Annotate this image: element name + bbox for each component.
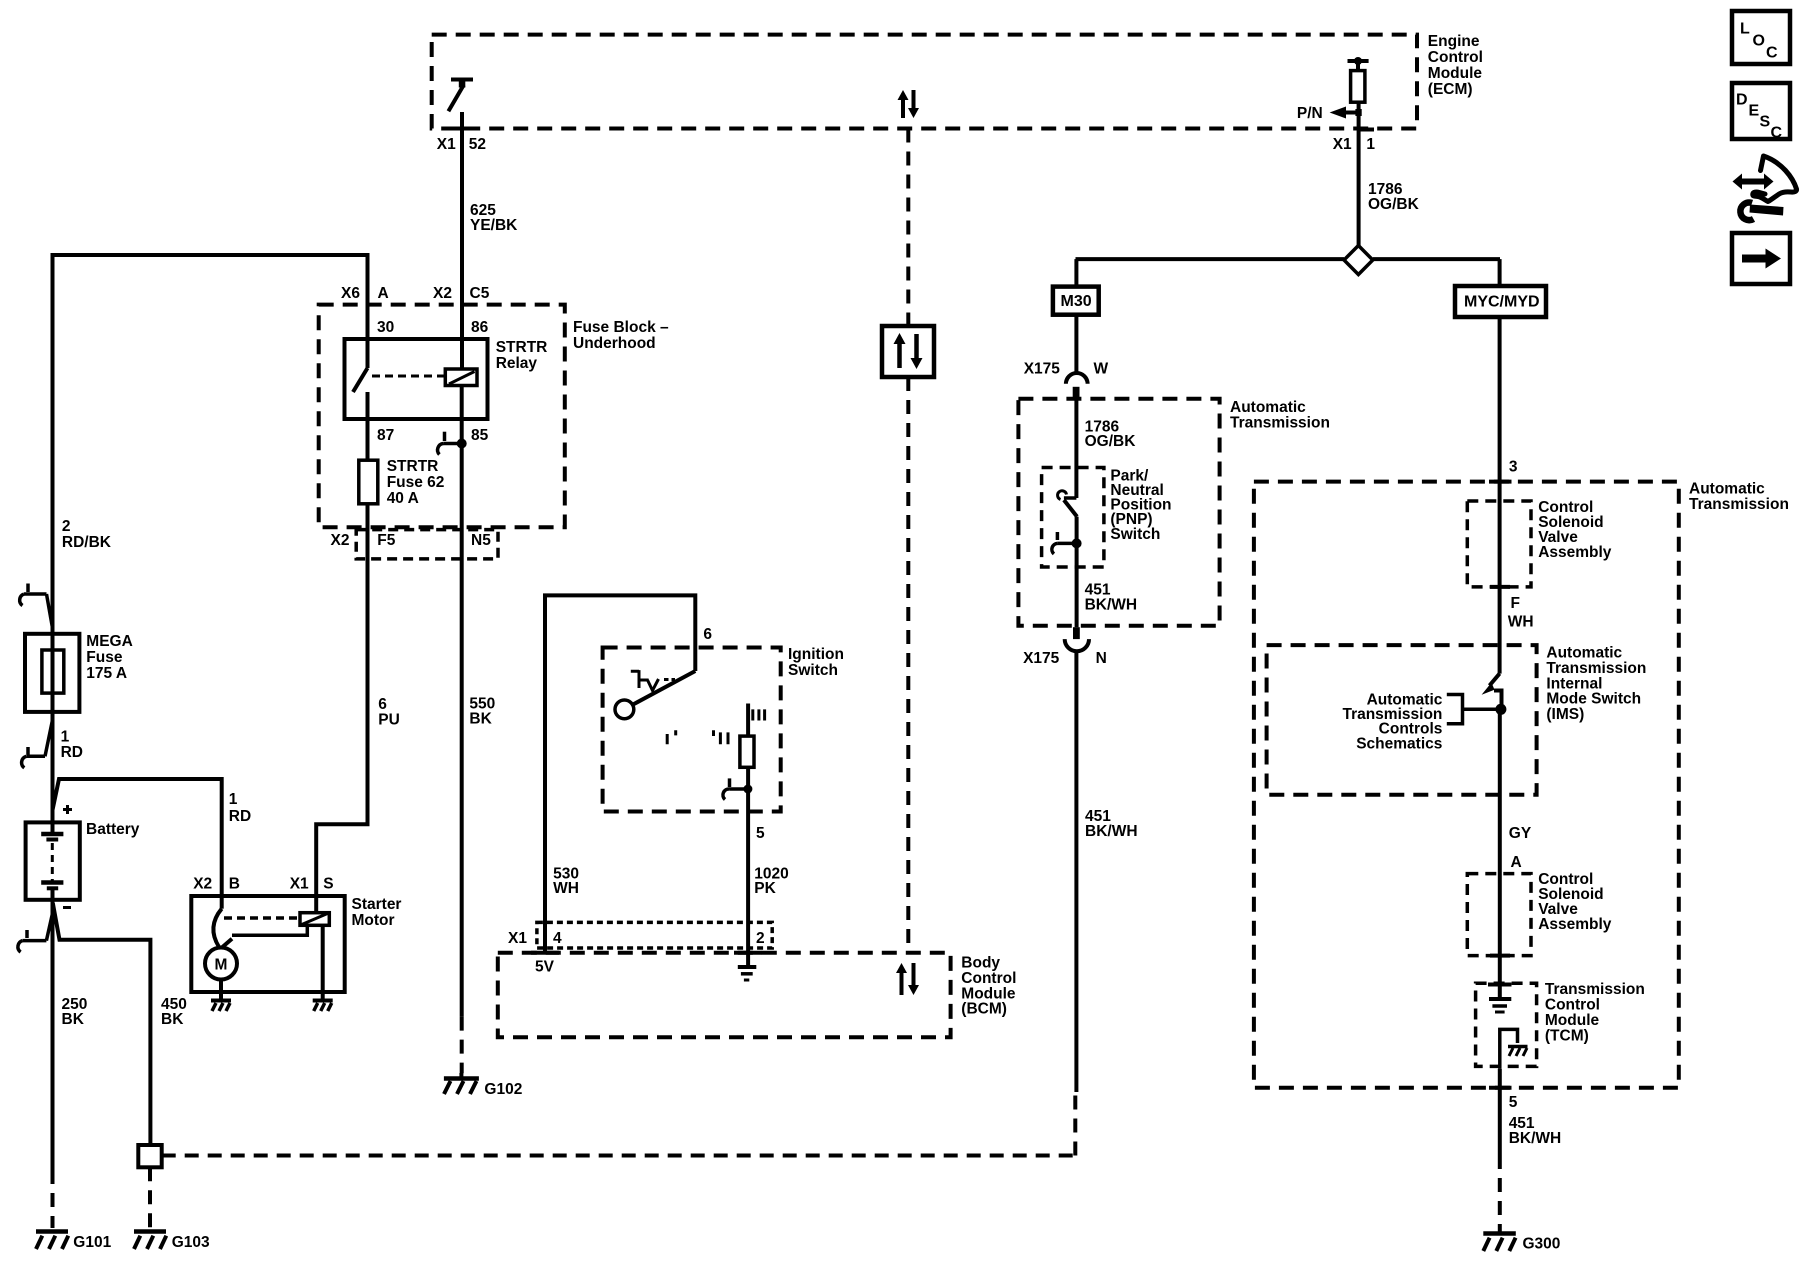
svg-text:Transmission: Transmission — [1230, 415, 1330, 432]
svg-text:G300: G300 — [1523, 1236, 1561, 1253]
position mark III — [753, 709, 765, 720]
icon LOC button — [1732, 11, 1790, 64]
starter S pin stub — [314, 897, 318, 913]
connector box X2 (fuse block bottom) — [356, 530, 498, 559]
P/N signal arrow — [1330, 107, 1362, 119]
svg-text:85: 85 — [471, 427, 489, 444]
position mark II — [714, 730, 729, 744]
svg-text:X2: X2 — [433, 285, 452, 302]
svg-text:BK/WH: BK/WH — [1085, 596, 1138, 613]
svg-text:X1: X1 — [437, 136, 456, 153]
position mark I — [667, 730, 676, 744]
wire 1786 OG/BK inside transmission — [1074, 399, 1078, 498]
wire dashed to G300 — [1498, 1155, 1502, 1232]
control solenoid valve assembly box (upper) — [1467, 501, 1531, 587]
inline clip symbol at PNP output — [1052, 532, 1082, 554]
inline clip symbol below MEGA fuse — [22, 720, 53, 768]
wire 2 RD/BK battery feed to relay pin 30 — [53, 255, 368, 832]
svg-text:M30: M30 — [1061, 293, 1092, 310]
label Control Solenoid Valve Assembly (upper) — [1538, 499, 1612, 561]
pin tick 2 — [734, 951, 762, 955]
ignition switch module box — [603, 648, 781, 812]
label Automatic Transmission Controls Schematics — [1342, 691, 1442, 752]
svg-text:4: 4 — [553, 930, 562, 947]
svg-text:6: 6 — [703, 626, 712, 643]
data link connector box — [882, 326, 934, 377]
label 2 RD/BK — [62, 518, 112, 551]
connector X175 N (arc half) — [1065, 639, 1089, 651]
svg-text:Assembly: Assembly — [1538, 544, 1612, 561]
bracket (controls schematics reference) — [1447, 695, 1463, 724]
wire 450 BK battery negative to splice pack — [53, 903, 151, 1145]
wire 530 WH BCM to ignition switch — [545, 595, 695, 952]
Fuse Block - Underhood module box — [319, 305, 565, 528]
label Automatic Transmission (right) — [1689, 481, 1789, 514]
label 625 YE/BK — [470, 202, 518, 234]
resistor (ECM internal pull-up) — [1348, 57, 1369, 102]
wire MYC/MYD to transmission pin 3 — [1498, 317, 1502, 674]
pin tick X1 1 — [1358, 128, 1374, 132]
pin labels X175 W — [1024, 361, 1109, 378]
wire serial data (dashed) ECM to data link box — [906, 129, 910, 327]
wire 550 BK dashed to G102 — [460, 1017, 464, 1074]
svg-text:F: F — [1511, 595, 1520, 612]
svg-text:Relay: Relay — [496, 355, 538, 372]
icon GO button (right arrow) — [1732, 233, 1790, 284]
fuse MEGA Fuse 175 A — [25, 634, 79, 712]
pin labels X175 N — [1023, 650, 1107, 667]
connector X175 W (pin half) — [1073, 387, 1080, 399]
svg-text:BK: BK — [469, 710, 492, 727]
svg-text:GY: GY — [1509, 825, 1532, 842]
svg-text:(TCM): (TCM) — [1545, 1027, 1589, 1044]
svg-text:BK: BK — [161, 1011, 184, 1028]
label Ignition Switch — [788, 646, 844, 679]
ignition key position indicator — [631, 670, 675, 690]
wire 451 BK/WH TCM down — [1498, 1069, 1502, 1155]
Automatic Transmission module box (right) — [1254, 482, 1679, 1088]
splice pack box — [138, 1145, 161, 1167]
label 1786 OG/BK — [1368, 181, 1420, 213]
svg-text:Underhood: Underhood — [573, 335, 656, 352]
svg-text:STRTR: STRTR — [387, 458, 439, 475]
label Park/ Neutral Position (PNP) Switch — [1110, 467, 1171, 542]
ECM module box (Engine Control Module) — [432, 35, 1417, 129]
pin tick X1 52 — [451, 127, 467, 131]
label STRTR Fuse 62 40 A — [387, 458, 445, 507]
label 1 RD (starter feed) — [229, 791, 251, 825]
svg-text:PU: PU — [378, 712, 400, 729]
connector X175 N (pin half) — [1073, 627, 1080, 639]
pin labels X1 4 2 — [508, 930, 765, 947]
svg-text:Fuse 62: Fuse 62 — [387, 474, 445, 491]
svg-text:52: 52 — [469, 136, 486, 153]
svg-text:MEGA: MEGA — [86, 633, 133, 650]
svg-text:A: A — [1511, 854, 1522, 871]
splice diamond S101 on 1786 OG/BK — [1344, 246, 1373, 275]
pin tick 3 — [1489, 480, 1512, 484]
wire 451 BK/WH down — [1074, 652, 1078, 1093]
wire relay pin 87 through STRTR fuse to starter S (6 PU) — [316, 419, 367, 897]
svg-text:Assembly: Assembly — [1538, 916, 1612, 933]
svg-text:WH: WH — [553, 880, 579, 897]
chassis ground (TCM internal) — [1508, 1047, 1528, 1057]
svg-text:BK/WH: BK/WH — [1509, 1130, 1562, 1147]
ignition switch blade — [633, 671, 695, 705]
pin labels X6 A X2 C5 — [341, 285, 490, 302]
label Engine Control Module (ECM) — [1428, 33, 1483, 98]
icon diagnostic (arrow and wrench) — [1733, 156, 1797, 220]
svg-text:Automatic: Automatic — [1689, 481, 1765, 498]
svg-text:X2: X2 — [193, 876, 212, 893]
svg-text:X1: X1 — [1333, 136, 1352, 153]
inline clip symbol above MEGA fuse — [20, 584, 53, 629]
svg-text:Automatic: Automatic — [1230, 399, 1306, 416]
fuse STRTR Fuse 62 40 A — [359, 460, 378, 504]
svg-text:X175: X175 — [1024, 361, 1061, 378]
label Starter Motor — [352, 896, 402, 929]
IMS box (Automatic Transmission Internal Mode Switch) — [1267, 645, 1537, 795]
svg-text:OG/BK: OG/BK — [1368, 196, 1420, 213]
svg-text:Battery: Battery — [86, 821, 140, 838]
label Transmission Control Module (TCM) — [1545, 981, 1645, 1044]
svg-text:S: S — [323, 876, 333, 893]
wire dashed splice pack to 451 BK/WH — [162, 1154, 1076, 1158]
battery Battery — [26, 822, 80, 899]
svg-text:M: M — [215, 957, 228, 974]
starter dashed actuator link — [224, 916, 297, 920]
svg-text:3: 3 — [1509, 458, 1518, 475]
wire dashed up to M30 branch — [1073, 1092, 1077, 1156]
svg-text:G101: G101 — [73, 1234, 111, 1251]
svg-text:Fuse Block –: Fuse Block – — [573, 319, 669, 336]
ground (starter solenoid) — [313, 1001, 333, 1012]
wire solenoid to ground — [321, 925, 325, 998]
pin tick 4 — [531, 951, 559, 955]
svg-text:2: 2 — [756, 930, 765, 947]
starter motor box — [191, 896, 344, 992]
svg-text:W: W — [1094, 361, 1109, 378]
ground (TCM internal) — [1489, 999, 1511, 1012]
wire to MYC/MYD — [1498, 259, 1502, 286]
wire IMS to lower solenoid assembly — [1498, 709, 1502, 997]
svg-text:Transmission: Transmission — [1689, 496, 1789, 513]
ground G103 — [134, 1232, 166, 1250]
svg-text:X1: X1 — [290, 876, 309, 893]
wire TCM pin 5 to chassis ground — [1500, 1029, 1518, 1069]
wire 625 YE/BK from ECM pin X1-52 down to STRTR relay coil — [460, 112, 464, 369]
pin labels X2 B X1 S — [193, 876, 333, 893]
svg-text:F5: F5 — [377, 532, 395, 549]
label Automatic Transmission Internal Mode Switch (IMS) — [1546, 645, 1646, 724]
serial data arrows inside ECM — [898, 90, 920, 118]
svg-text:S: S — [1760, 114, 1771, 131]
svg-text:Motor: Motor — [352, 912, 395, 929]
svg-text:(BCM): (BCM) — [961, 1001, 1007, 1018]
label 1786 OG/BK — [1085, 418, 1137, 450]
svg-text:Engine: Engine — [1428, 33, 1480, 50]
label 451 BK/WH (in transmission) — [1085, 582, 1138, 614]
wire relay pin 85 to ground path 550 BK — [460, 386, 464, 1017]
svg-text:1: 1 — [1366, 136, 1375, 153]
svg-text:RD: RD — [61, 744, 83, 761]
svg-text:RD/BK: RD/BK — [62, 534, 112, 551]
pin tick (solenoid lower bottom) — [1490, 954, 1510, 958]
connector tag MYC/MYD — [1455, 286, 1546, 317]
starter solenoid coil — [300, 913, 329, 926]
svg-text:C: C — [1766, 45, 1778, 62]
label 6 PU — [378, 696, 400, 729]
label 1020 PK — [754, 865, 788, 897]
svg-text:6: 6 — [378, 696, 387, 713]
STRTR relay box — [345, 339, 488, 419]
relay coil — [445, 369, 477, 386]
svg-text:MYC/MYD: MYC/MYD — [1464, 294, 1540, 311]
wire to M30 — [1074, 259, 1078, 287]
pin tick F (solenoid bottom) — [1490, 585, 1510, 589]
resistor (ignition crank contact) — [740, 704, 754, 768]
pin labels 30 86 — [377, 319, 489, 336]
pin labels 87 85 — [377, 427, 489, 444]
connector X175 W (arc half) — [1066, 373, 1088, 384]
svg-text:1: 1 — [229, 791, 238, 808]
label 550 BK — [469, 695, 495, 727]
serial data arrows inside BCM — [896, 963, 919, 995]
wire 450 BK dashed to G103 — [148, 1167, 152, 1228]
svg-text:40 A: 40 A — [387, 490, 419, 507]
svg-text:Module: Module — [1428, 65, 1483, 82]
label Body Control Module (BCM) — [961, 955, 1016, 1018]
svg-text:O: O — [1753, 33, 1765, 50]
svg-text:5: 5 — [756, 825, 765, 842]
TCM box (Transmission Control Module) — [1476, 983, 1537, 1066]
pin labels X2 F5 N5 — [331, 532, 492, 549]
svg-text:N5: N5 — [471, 532, 491, 549]
svg-text:B: B — [229, 876, 240, 893]
battery minus sign — [63, 906, 71, 909]
svg-text:Starter: Starter — [352, 896, 402, 913]
svg-text:(ECM): (ECM) — [1428, 81, 1473, 98]
wire 250 BK dashed to G101 — [51, 1170, 55, 1228]
svg-text:YE/BK: YE/BK — [470, 217, 518, 234]
svg-text:X1: X1 — [508, 930, 527, 947]
relay contact blade pin 30/87 — [353, 339, 368, 419]
starter contact blade (pin B) — [213, 897, 232, 948]
label Fuse Block - Underhood — [573, 319, 669, 352]
label 450 BK — [161, 996, 187, 1028]
svg-text:87: 87 — [377, 427, 394, 444]
wire 1020 PK ignition to BCM ground — [746, 767, 750, 966]
svg-text:N: N — [1096, 650, 1107, 667]
svg-text:86: 86 — [471, 319, 489, 336]
PNP switch box — [1042, 468, 1104, 568]
wire PNP to junction — [1075, 517, 1079, 567]
data arrows in box — [894, 333, 923, 369]
ground (starter motor) — [211, 1001, 231, 1012]
svg-text:OG/BK: OG/BK — [1085, 433, 1137, 450]
svg-text:1: 1 — [61, 728, 70, 745]
ground (BCM internal) — [738, 967, 757, 980]
pin tick 5 — [1489, 1086, 1512, 1090]
svg-text:(IMS): (IMS) — [1546, 706, 1584, 723]
ignition switch contact circle — [615, 700, 634, 719]
inline clip symbol below battery — [18, 912, 53, 952]
svg-text:L: L — [1740, 21, 1750, 38]
svg-text:BK/WH: BK/WH — [1085, 823, 1138, 840]
svg-text:Ignition: Ignition — [788, 646, 844, 663]
svg-text:X175: X175 — [1023, 650, 1060, 667]
svg-text:RD: RD — [229, 808, 251, 825]
IMS switch blade with arrowhead — [1482, 674, 1502, 705]
svg-text:E: E — [1749, 103, 1760, 120]
label 250 BK — [62, 996, 88, 1028]
label Control Solenoid Valve Assembly (lower) — [1538, 871, 1612, 933]
label 530 WH — [553, 865, 579, 897]
PNP switch blade — [1058, 491, 1077, 517]
pin label X1 1 — [1333, 136, 1376, 153]
wire 1 RD battery positive to starter B — [53, 779, 222, 897]
svg-text:BK: BK — [62, 1011, 85, 1028]
svg-text:P/N: P/N — [1297, 105, 1323, 122]
wire to X175 N — [1075, 567, 1079, 627]
label 451 BK/WH — [1085, 808, 1138, 840]
ground G102 — [444, 1073, 479, 1094]
ground G300 — [1483, 1234, 1516, 1252]
svg-text:C5: C5 — [470, 285, 490, 302]
junction dot IMS — [1495, 704, 1506, 715]
label Automatic Transmission (left) — [1230, 399, 1330, 432]
BCM module box (Body Control Module) — [498, 953, 951, 1038]
pin tick TCM — [1488, 983, 1512, 987]
label STRTR Relay — [496, 339, 548, 372]
svg-text:175 A: 175 A — [86, 665, 127, 682]
wire ECM pin X1-1 down to splice diamond — [1357, 102, 1361, 245]
battery plus sign — [63, 805, 72, 814]
svg-text:D: D — [1736, 92, 1748, 109]
motor M — [205, 948, 237, 980]
inline clip symbol at pin 85 — [438, 432, 467, 455]
ground G101 — [36, 1232, 68, 1250]
Automatic Transmission module box (left) — [1018, 399, 1219, 626]
svg-text:STRTR: STRTR — [496, 339, 548, 356]
svg-text:X6: X6 — [341, 285, 360, 302]
svg-text:5: 5 — [1509, 1094, 1518, 1111]
solenoid linkage wire — [232, 925, 307, 935]
label 1 RD (below MEGA fuse) — [61, 728, 83, 761]
svg-text:G103: G103 — [172, 1234, 210, 1251]
pin label X1 52 — [437, 136, 486, 153]
icon DESC button — [1732, 83, 1790, 142]
wire 250 BK battery negative down — [51, 900, 55, 1170]
svg-text:PK: PK — [754, 880, 776, 897]
svg-text:WH: WH — [1508, 614, 1534, 631]
wire motor to ground — [219, 980, 223, 999]
svg-text:30: 30 — [377, 319, 394, 336]
svg-text:5V: 5V — [535, 959, 555, 976]
wire serial data (dashed) box to BCM — [906, 377, 910, 953]
connector tag M30 — [1053, 287, 1099, 315]
svg-text:Fuse: Fuse — [86, 649, 123, 666]
svg-text:Schematics: Schematics — [1356, 735, 1442, 752]
svg-text:Switch: Switch — [788, 662, 838, 679]
svg-text:C: C — [1771, 125, 1783, 142]
inline clip symbol at ignition output — [723, 778, 752, 799]
control solenoid valve assembly box (lower) — [1467, 874, 1531, 956]
svg-text:A: A — [378, 285, 389, 302]
relay dashed actuator link — [372, 375, 445, 378]
connector box X1 (BCM) — [537, 922, 772, 948]
svg-text:2: 2 — [62, 518, 71, 535]
wire bus 1786 OG/BK horizontal — [1076, 257, 1501, 261]
wire to schematics reference bracket — [1464, 708, 1501, 712]
wire M30 to X175 W — [1074, 315, 1078, 373]
svg-text:Switch: Switch — [1110, 526, 1160, 543]
svg-text:X2: X2 — [331, 532, 350, 549]
switch (ECM internal driver, pin 52) — [448, 80, 473, 112]
label 5 451 BK/WH — [1509, 1094, 1562, 1147]
svg-text:Control: Control — [1428, 49, 1483, 66]
label MEGA Fuse 175 A — [86, 633, 133, 682]
svg-text:G102: G102 — [484, 1081, 522, 1098]
